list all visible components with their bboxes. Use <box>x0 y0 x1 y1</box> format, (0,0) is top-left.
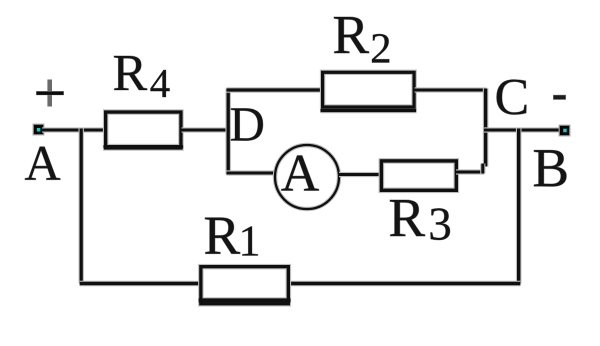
label R2 <box>334 17 369 53</box>
wire B down to bottom rail <box>516 129 522 284</box>
wire node C to terminal B <box>484 127 561 132</box>
node B label <box>534 150 566 186</box>
ammeter A <box>275 145 339 209</box>
minus polarity symbol <box>553 95 566 100</box>
node D label <box>231 108 263 140</box>
resistor R3 <box>381 161 456 190</box>
node C label <box>497 80 527 115</box>
label R3 <box>390 200 425 236</box>
label R1 <box>205 218 240 254</box>
node A label <box>25 147 60 180</box>
wire R2 to node C <box>415 87 487 92</box>
terminal A dot <box>33 124 45 136</box>
ammeter letter A <box>281 156 318 191</box>
jog wire joining R3 branch to vertical <box>480 164 485 174</box>
wire D to R2 top branch <box>227 87 323 92</box>
wire A junction down to bottom rail <box>78 129 83 284</box>
terminal B dot <box>559 125 571 137</box>
vertical wire to node C <box>483 89 489 167</box>
wire R4 to node D <box>182 127 228 132</box>
wire ammeter to R3 <box>339 172 381 177</box>
node D vertical wire <box>225 89 231 175</box>
resistor R4 <box>103 112 183 148</box>
resistor R1 <box>198 267 290 304</box>
label R4 <box>114 56 147 90</box>
wire A to R4 <box>42 127 106 132</box>
wire R3 to node C vertical <box>456 169 484 174</box>
resistor R2 <box>320 72 416 110</box>
bottom rail wire <box>80 281 521 287</box>
plus polarity symbol <box>36 80 64 107</box>
wire D to ammeter <box>227 170 277 175</box>
